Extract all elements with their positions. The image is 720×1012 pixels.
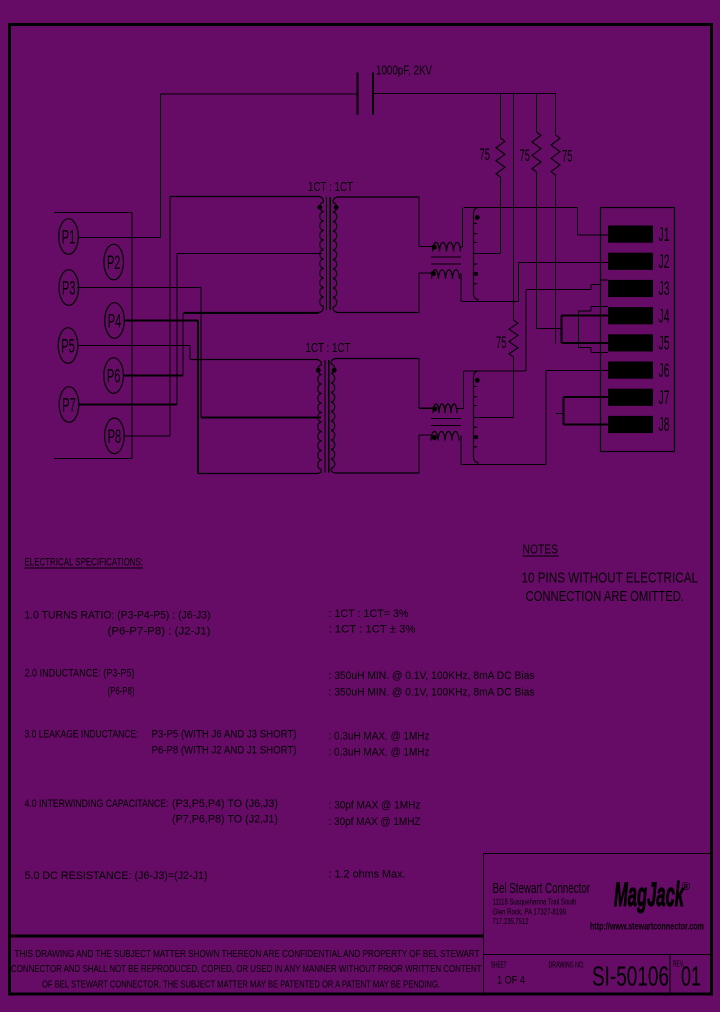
svg-text:P7: P7	[62, 396, 76, 417]
wire T2 primary bottom	[198, 473, 319, 475]
svg-text:(P7,P6,P8) TO (J2,J1): (P7,P6,P8) TO (J2,J1)	[172, 814, 278, 826]
svg-text:75: 75	[480, 145, 491, 164]
transformer T2 secondary winding	[331, 359, 419, 365]
pin P4	[105, 303, 125, 339]
choke L2 core	[431, 419, 461, 426]
svg-text:P3-P5 (WITH J6 AND J3 SHORT): P3-P5 (WITH J6 AND J3 SHORT)	[152, 729, 297, 741]
svg-text:CONNECTION ARE OMITTED.: CONNECTION ARE OMITTED.	[526, 588, 685, 605]
wire choke L1 bottom right down	[460, 273, 462, 302]
svg-text:P3: P3	[62, 279, 76, 300]
wire P7	[79, 403, 177, 405]
wire tie bar to J5 bottom	[579, 348, 609, 353]
wire coil E2 center tap to R4	[474, 417, 514, 419]
wire J8	[564, 423, 609, 425]
svg-text:75: 75	[496, 333, 507, 352]
svg-text:2.0 INDUCTANCE: (P3-P5): 2.0 INDUCTANCE: (P3-P5)	[25, 668, 135, 680]
pin P2	[104, 244, 124, 280]
pin P8	[105, 418, 125, 454]
wire shield stub bottom	[54, 458, 132, 460]
wire T1 secondary top to choke	[419, 197, 433, 246]
wire P1 riser up to cap	[160, 94, 162, 238]
svg-text:: 1.2 ohms Max.: : 1.2 ohms Max.	[329, 869, 406, 881]
wire J7/J8 tie bar	[562, 397, 564, 425]
wire shield riser	[131, 213, 133, 459]
title block frame	[484, 854, 712, 995]
wire P5	[78, 345, 190, 347]
wire P1 to riser	[78, 237, 161, 239]
wire choke L2 top right up to lower rail	[457, 371, 464, 408]
wire P5 jog down to T2 top	[189, 346, 191, 360]
svg-text:(P3,P5,P4) TO (J6,J3): (P3,P5,P4) TO (J6,J3)	[172, 798, 278, 810]
svg-text:P1: P1	[62, 228, 76, 249]
svg-text:4.0 INTERWINDING CAPACITANCE:: 4.0 INTERWINDING CAPACITANCE:	[25, 798, 169, 810]
pin P6	[104, 358, 124, 394]
resistor R1	[496, 138, 505, 177]
svg-text:J3: J3	[659, 279, 670, 300]
pin P3	[59, 270, 79, 306]
pin J1 pad	[608, 226, 653, 243]
pin J5 pad	[608, 334, 653, 351]
wire resistor R3 top lead	[555, 94, 557, 136]
wire R2 stub to J4/J5 tie	[537, 328, 562, 330]
svg-text:CONNECTOR AND SHALL NOT BE REP: CONNECTOR AND SHALL NOT BE REPRODUCED, C…	[11, 963, 482, 975]
svg-text:(P6-P7-P8) : (J2-J1): (P6-P7-P8) : (J2-J1)	[108, 626, 211, 638]
svg-text:ELECTRICAL SPECIFICATIONS:: ELECTRICAL SPECIFICATIONS:	[25, 557, 144, 569]
wire P8 riser up to T1 top	[169, 197, 171, 437]
wire T1 secondary bottom	[337, 312, 420, 314]
svg-text:P6-P8 (WITH J2 AND J1 SHORT): P6-P8 (WITH J2 AND J1 SHORT)	[152, 745, 297, 757]
svg-text:P6: P6	[107, 367, 121, 388]
transformer T1 primary winding	[170, 197, 324, 203]
svg-text:: 1CT : 1CT ± 3%: : 1CT : 1CT ± 3%	[329, 624, 416, 636]
wire choke L2 bottom right down	[460, 436, 462, 465]
wire P3 riser down	[200, 288, 202, 418]
wire P4 riser down	[197, 321, 199, 474]
svg-text:J2: J2	[659, 252, 670, 273]
pin J7 pad	[608, 389, 653, 406]
svg-text:http://www.stewartconnector.co: http://www.stewartconnector.com	[590, 922, 704, 933]
wire T2 secondary bottom	[335, 472, 419, 474]
svg-text:5.0 DC RESISTANCE: (J6-J3)=(J: 5.0 DC RESISTANCE: (J6-J3)=(J2-J1)	[25, 870, 208, 882]
svg-text:: 1CT : 1CT= 3%: : 1CT : 1CT= 3%	[329, 608, 409, 620]
svg-text:1CT : 1CT: 1CT : 1CT	[306, 341, 351, 355]
svg-text:P4: P4	[108, 312, 122, 333]
connector J outline	[601, 208, 675, 452]
pin P7	[59, 387, 79, 423]
transformer T2 primary winding	[191, 360, 322, 366]
pin J2 pad	[608, 253, 653, 270]
svg-text:3.0 LEAKAGE INDUCTANCE:: 3.0 LEAKAGE INDUCTANCE:	[25, 729, 139, 741]
capacitor C1 plates	[358, 73, 374, 115]
svg-text:DRAWING NO.: DRAWING NO.	[549, 961, 585, 970]
transformer T2 primary phase dot	[316, 368, 321, 373]
svg-text:1.0 TURNS RATIO: (P3-P4-P5) :: 1.0 TURNS RATIO: (P3-P4-P5) : (J6-J3)	[25, 610, 211, 622]
svg-text:717.235.7512: 717.235.7512	[493, 917, 529, 926]
choke L1 core	[431, 257, 461, 264]
choke L1 bottom winding	[432, 270, 460, 279]
wire resistor R1 top lead	[500, 94, 502, 139]
svg-text:Bel Stewart Connector: Bel Stewart Connector	[493, 880, 591, 897]
wire T1 secondary bottom to choke	[419, 273, 431, 313]
wire J6 branch riser	[545, 371, 547, 465]
wire rail down to J1	[578, 208, 609, 236]
svg-text:: 30pf MAX @ 1MHz: : 30pf MAX @ 1MHz	[329, 800, 421, 812]
svg-text:Glen Rock, PA 17327-8199: Glen Rock, PA 17327-8199	[493, 908, 567, 917]
wire J6	[546, 370, 608, 372]
wire cap right lead / top rail	[374, 93, 556, 95]
svg-text:10 PINS WITHOUT ELECTRICAL: 10 PINS WITHOUT ELECTRICAL	[522, 570, 699, 587]
transformer T1 primary phase dot	[317, 205, 322, 210]
transformer T1 core	[326, 197, 330, 310]
svg-text:1 OF 4: 1 OF 4	[497, 975, 525, 987]
choke L2 top phase dot	[432, 406, 437, 411]
wire P6 riser up to T1 bottom	[182, 314, 184, 376]
wire J5	[562, 342, 609, 344]
coil E1 phase dot	[475, 215, 480, 220]
svg-text:(P6-P8): (P6-P8)	[108, 686, 135, 698]
wire resistor R2 bottom lead	[536, 172, 538, 329]
transformer T1 secondary winding	[333, 197, 419, 203]
svg-text:: 30pf MAX @ 1MHZ: : 30pf MAX @ 1MHZ	[329, 816, 421, 828]
coil E2 winding	[474, 371, 479, 465]
wire tie bar to J4 top	[579, 307, 609, 312]
wire J7	[564, 396, 609, 398]
wire T1 primary bottom	[183, 313, 319, 315]
svg-text:P5: P5	[61, 337, 75, 358]
wire J4/J5 second tie bar	[578, 311, 580, 348]
wire choke L1 top right up to rail	[461, 208, 463, 247]
svg-text:J8: J8	[659, 415, 670, 436]
svg-text:MagJack: MagJack	[614, 876, 685, 914]
svg-text:: 0.3uH MAX. @ 1MHz: : 0.3uH MAX. @ 1MHz	[329, 731, 430, 743]
wire node B to J2 riser	[462, 263, 519, 302]
wire node D bottom run	[462, 464, 547, 466]
pin P5	[58, 328, 78, 364]
pin J8 pad	[608, 416, 653, 433]
svg-text:OF BEL STEWART CONNECTOR. THE: OF BEL STEWART CONNECTOR. THE SUBJECT MA…	[42, 979, 440, 991]
wire J4/J5 tie bar	[560, 316, 562, 344]
svg-text:75: 75	[562, 147, 573, 166]
svg-text:1CT : 1CT: 1CT : 1CT	[308, 180, 353, 194]
transformer T2 core	[325, 360, 329, 473]
svg-text:J7: J7	[659, 388, 670, 409]
svg-text:: 350uH MIN. @ 0.1V, 100KHz, 8: : 350uH MIN. @ 0.1V, 100KHz, 8mA DC Bias	[329, 670, 535, 682]
svg-text:NOTES: NOTES	[523, 542, 559, 557]
svg-text:SI-50106: SI-50106	[592, 961, 669, 992]
choke L2 bottom winding	[431, 432, 459, 441]
svg-text:P8: P8	[108, 427, 122, 448]
wire shield stub top	[54, 212, 132, 214]
choke L2 top winding	[433, 404, 457, 413]
wire T2 secondary bottom to choke	[419, 435, 431, 473]
wire P7 riser up to T1 center tap	[176, 254, 178, 405]
svg-text:: 350uH MIN. @ 0.1V, 100KHz, 8: : 350uH MIN. @ 0.1V, 100KHz, 8mA DC Bias	[329, 687, 535, 699]
wire upper rail node A	[464, 207, 578, 209]
wire coil E1 center tap to R1	[474, 253, 501, 255]
resistor R4	[509, 320, 518, 357]
wire J4	[562, 314, 609, 316]
wire P3	[77, 287, 201, 289]
choke L1 top phase dot	[432, 244, 437, 249]
coil E1 tap mark	[474, 272, 478, 276]
svg-text:J6: J6	[659, 361, 670, 382]
svg-text:: 0.3uH MAX. @ 1MHz: : 0.3uH MAX. @ 1MHz	[329, 747, 430, 759]
svg-text:SHEET: SHEET	[491, 961, 507, 970]
coil E2 phase dot	[475, 378, 480, 383]
pin J6 pad	[608, 362, 653, 379]
svg-text:75: 75	[520, 146, 531, 165]
svg-text:THIS DRAWING AND THE SUBJECT M: THIS DRAWING AND THE SUBJECT MATTER SHOW…	[15, 948, 480, 960]
wire T2 center tap	[201, 416, 321, 418]
svg-text:P2: P2	[107, 253, 121, 274]
choke L1 bottom phase dot	[431, 271, 436, 276]
coil E2 tap mark	[474, 435, 478, 439]
svg-text:J1: J1	[659, 225, 670, 246]
wire J7/J8 stub	[556, 413, 564, 415]
wire resistor R1 bottom lead	[500, 177, 502, 253]
choke L1 top winding	[433, 243, 461, 252]
wire lower rail node C	[464, 370, 526, 372]
pin J3 pad	[608, 280, 653, 297]
svg-text:J4: J4	[659, 306, 670, 327]
svg-text:1000pF, 2KV: 1000pF, 2KV	[376, 63, 432, 78]
svg-text:01: 01	[681, 961, 701, 992]
resistor R3	[551, 135, 560, 175]
pin P1	[59, 219, 79, 255]
wire P4	[124, 319, 198, 321]
choke L2 bottom phase dot	[432, 435, 437, 440]
wire resistor R4 bottom lead	[513, 357, 515, 418]
wire J3 riser	[525, 290, 527, 372]
wire cap left lead	[161, 93, 358, 95]
coil E1 winding	[474, 208, 479, 302]
wire J3 staircase	[526, 280, 608, 290]
wire P8	[124, 435, 170, 437]
svg-text:®: ®	[682, 881, 690, 893]
wire resistor R2 top lead	[536, 94, 538, 133]
wire J2	[519, 262, 609, 264]
wire P6	[124, 374, 183, 376]
transformer T2 secondary phase dot	[332, 368, 337, 373]
wire T2 secondary top to choke	[419, 359, 434, 409]
resistor R2	[532, 132, 541, 172]
svg-text:11118 Susquehanna Trail South: 11118 Susquehanna Trail South	[493, 898, 577, 907]
transformer T1 secondary phase dot	[334, 205, 339, 210]
svg-text:J5: J5	[659, 334, 670, 355]
wire resistor R3 bottom lead	[555, 175, 557, 344]
wire T1 center tap	[177, 253, 322, 255]
wire resistor R4 top lead	[513, 94, 515, 321]
pin J4 pad	[608, 307, 653, 324]
